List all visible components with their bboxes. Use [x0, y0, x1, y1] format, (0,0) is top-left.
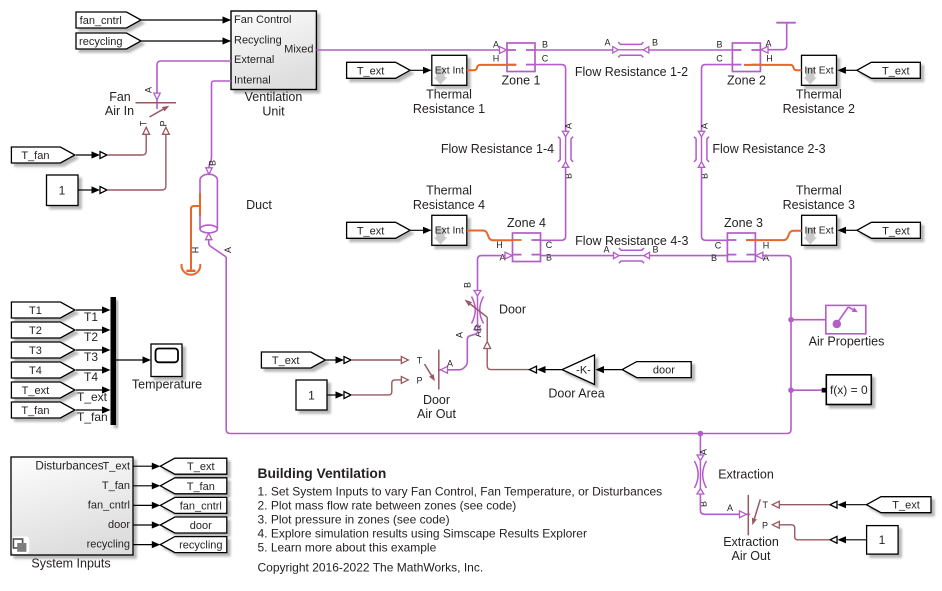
constant 1 (fan) [47, 175, 79, 206]
svg-text:Mixed: Mixed [284, 43, 313, 55]
signal Door Area to Door AR [530, 366, 563, 373]
svg-text:Temperature: Temperature [132, 377, 202, 391]
svg-text:T4: T4 [84, 370, 98, 384]
annotation numbered list [258, 485, 663, 555]
wire label T_ext [77, 390, 108, 404]
svg-text:Thermal: Thermal [796, 184, 842, 198]
wire T2 to mux [76, 326, 111, 333]
wire FR1-2 to Zone2 B [649, 49, 733, 51]
goto tag T_fan [11, 147, 75, 163]
subsystem Thermal Resistance 1 [432, 55, 467, 85]
mux Temperature inputs [111, 297, 117, 425]
svg-text:T_ext: T_ext [882, 225, 910, 237]
flow resistance 2-3 icon [694, 131, 709, 167]
wire Zone1 C down [535, 65, 566, 131]
svg-text:recycling: recycling [87, 539, 130, 551]
port letters FR4-3 [603, 245, 658, 255]
svg-text:1: 1 [879, 533, 886, 547]
svg-text:T_ext: T_ext [357, 65, 385, 77]
port label A (Door Air Out) [447, 359, 453, 369]
svg-text:Resistance 4: Resistance 4 [413, 198, 485, 212]
svg-text:5. Learn more about this examp: 5. Learn more about this example [258, 540, 437, 554]
svg-text:-K-: -K- [576, 365, 591, 377]
label Zone 2 [727, 74, 766, 88]
svg-text:T: T [417, 356, 423, 366]
svg-text:Fan Control: Fan Control [234, 14, 291, 26]
goto tag T_ext (mux) [11, 382, 75, 398]
wire T_ext to mux [76, 386, 111, 393]
label Door [499, 303, 526, 317]
svg-text:T_fan: T_fan [187, 481, 215, 493]
subsystem Thermal Resistance 2 [802, 55, 837, 85]
svg-text:Air Out: Air Out [732, 549, 771, 563]
chamber Zone 2 [732, 43, 761, 72]
svg-text:Ext Int: Ext Int [435, 226, 464, 237]
label Temperature [132, 377, 202, 391]
thermal wire TR1 to Zone 1 H [467, 65, 517, 70]
wire External to Fan Air In [154, 61, 231, 109]
svg-text:Air In: Air In [105, 104, 134, 118]
wire FR2-3 to Zone3 C [702, 168, 728, 241]
svg-text:1: 1 [59, 184, 66, 198]
svg-text:System Inputs: System Inputs [31, 557, 110, 571]
from tag door [160, 517, 227, 533]
svg-text:H: H [191, 247, 201, 254]
label Door Area [548, 387, 604, 401]
svg-text:3. Plot pressure in zones (see: 3. Plot pressure in zones (see code) [258, 513, 450, 527]
svg-text:T_fan: T_fan [102, 480, 130, 492]
wire Duct A down [209, 240, 227, 257]
wire recycling to Ventilation Unit [141, 37, 231, 44]
svg-text:2. Plot mass flow rate between: 2. Plot mass flow rate between zones (se… [258, 499, 517, 513]
svg-text:Zone 3: Zone 3 [724, 216, 763, 230]
svg-text:1. Set System Inputs to vary F: 1. Set System Inputs to vary Fan Control… [258, 485, 663, 499]
label Thermal Resistance 3 [783, 184, 855, 213]
port labels FR1-4 [564, 123, 574, 179]
wire 1 to Fan Air In P [78, 135, 166, 194]
svg-text:Zone 4: Zone 4 [507, 216, 546, 230]
subsystem Ventilation Unit [231, 11, 316, 90]
goto tag T1 (mux) [11, 302, 75, 318]
thermal wire TR4 to Zone 4 H [467, 231, 522, 241]
restriction Extraction icon [694, 455, 706, 494]
svg-text:B: B [716, 40, 722, 50]
label Air Properties [809, 335, 885, 349]
label Fan Air In [105, 90, 134, 118]
flow resistance 4-3 icon [614, 248, 650, 263]
from tag T_ext [160, 458, 227, 474]
wire Zone4 A from Door [478, 252, 513, 291]
wire Extraction to Extraction Air Out [700, 494, 750, 518]
port letters Zone 1 [493, 40, 549, 64]
svg-text:B: B [542, 40, 548, 50]
wire label T1 [84, 310, 98, 324]
svg-text:door: door [653, 365, 675, 377]
svg-text:A: A [564, 123, 574, 129]
svg-text:Fan: Fan [109, 90, 131, 104]
goto tag door [622, 362, 691, 378]
svg-text:T_ext: T_ext [892, 500, 920, 512]
label Flow Resistance 4-3 [575, 234, 688, 248]
port labels Extraction [699, 449, 709, 507]
svg-text:Thermal: Thermal [426, 88, 472, 102]
port label A (Door) [455, 332, 465, 338]
thermal wire Zone 2 H to TR2 [744, 65, 802, 70]
wire label T3 [84, 350, 98, 364]
goto tag T_ext (row4) [347, 222, 411, 238]
reservoir Extraction Air Out [748, 495, 779, 535]
junction dot extraction [698, 431, 704, 437]
pipe Duct [200, 174, 217, 239]
svg-text:recycling: recycling [179, 540, 222, 552]
svg-text:Door Area: Door Area [548, 387, 604, 401]
svg-text:door: door [190, 520, 212, 532]
wire System Inputs fan_cntrl [133, 502, 160, 509]
svg-text:T_fan: T_fan [21, 150, 49, 162]
svg-text:Door: Door [499, 303, 526, 317]
svg-text:T_ext: T_ext [357, 225, 385, 237]
thermal wire Zone 3 H to TR3 [746, 231, 802, 240]
subsystem Thermal Resistance 3 [802, 215, 837, 245]
svg-text:T: T [139, 120, 149, 126]
subsystem Thermal Resistance 4 [432, 215, 467, 245]
port label H (Duct) [191, 247, 201, 254]
svg-text:Door: Door [423, 393, 450, 407]
svg-text:fan_cntrl: fan_cntrl [80, 15, 122, 27]
svg-text:T2: T2 [84, 330, 98, 344]
wire T3 to mux [76, 346, 111, 353]
wire Zone2 C down [702, 65, 733, 131]
svg-text:T_ext: T_ext [882, 65, 910, 77]
wire System Inputs recycling [133, 541, 160, 548]
svg-text:C: C [716, 54, 723, 64]
label Zone 4 [507, 216, 546, 230]
goto tag T_ext (extraction) [867, 497, 932, 513]
svg-text:A: A [727, 503, 733, 513]
svg-text:A: A [223, 247, 233, 253]
wire T1 to mux [76, 306, 111, 313]
wire T_ext to Door Air Out T [326, 356, 402, 363]
junction dot air properties [788, 317, 794, 323]
svg-text:recycling: recycling [79, 36, 122, 48]
svg-text:Resistance 3: Resistance 3 [783, 198, 855, 212]
svg-text:B: B [546, 253, 552, 263]
svg-text:Flow Resistance 1-2: Flow Resistance 1-2 [575, 65, 688, 79]
port label B (Door) [463, 282, 473, 288]
svg-text:Copyright 2016-2022 The MathWo: Copyright 2016-2022 The MathWorks, Inc. [258, 560, 484, 574]
svg-text:Duct: Duct [246, 198, 272, 212]
port label A (Extraction out) [727, 503, 733, 513]
svg-text:B: B [711, 253, 717, 263]
wire System Inputs door [133, 521, 160, 528]
svg-text:P: P [158, 120, 168, 126]
label Thermal Resistance 1 [413, 88, 485, 117]
from tag fan_cntrl [160, 497, 227, 513]
svg-text:Building Ventilation: Building Ventilation [258, 466, 387, 481]
signal AR Door [473, 317, 530, 369]
svg-text:A: A [604, 38, 610, 48]
svg-text:T4: T4 [29, 365, 42, 377]
label Door Air Out [417, 393, 456, 421]
svg-text:B: B [652, 38, 658, 48]
wire Internal to Duct [206, 81, 231, 174]
wire T_ext to Thermal Resistance 4 [411, 227, 432, 234]
svg-text:T3: T3 [84, 350, 98, 364]
svg-text:T_ext: T_ext [22, 385, 50, 397]
wire main trunk [226, 256, 791, 434]
goto tag fan_cntrl [76, 12, 141, 28]
svg-text:4. Explore simulation results: 4. Explore simulation results using Sims… [258, 526, 587, 540]
svg-text:T_ext: T_ext [102, 460, 130, 472]
subsystem System Inputs [11, 457, 133, 555]
wire T_ext to Thermal Resistance 1 [411, 67, 432, 74]
svg-text:fan_cntrl: fan_cntrl [180, 500, 222, 512]
svg-text:P: P [416, 376, 422, 386]
constant 1 (door) [296, 380, 327, 410]
svg-text:Zone 2: Zone 2 [727, 74, 766, 88]
label Extraction Air Out [723, 535, 779, 563]
svg-text:Air Out: Air Out [417, 407, 456, 421]
port letters Zone 4 [496, 240, 553, 263]
port label A (Fan Air In) [144, 87, 154, 93]
goto tag T_ext (TR2) [857, 62, 921, 78]
svg-text:door: door [108, 519, 130, 531]
wire label T2 [84, 330, 98, 344]
svg-text:C: C [542, 54, 549, 64]
svg-text:f(x) = 0: f(x) = 0 [830, 383, 868, 397]
goto tag T_ext (TR3) [857, 222, 921, 238]
svg-text:Thermal: Thermal [796, 88, 842, 102]
svg-text:fan_cntrl: fan_cntrl [88, 500, 130, 512]
wire mux to Temperature scope [116, 356, 151, 363]
wire T4 to mux [76, 366, 111, 373]
from tag recycling [160, 537, 227, 553]
chamber Zone 3 [727, 233, 756, 262]
label Zone 1 [502, 74, 541, 88]
label Flow Resistance 1-4 [441, 142, 554, 156]
wire System Inputs T_ext [133, 463, 160, 470]
svg-text:A: A [699, 449, 709, 455]
label Thermal Resistance 4 [413, 184, 485, 213]
port letters Zone 2 [716, 39, 773, 64]
port label B (Duct) [208, 160, 218, 166]
label Extraction [718, 468, 774, 482]
wire FR4-3 to Zone3 B [650, 255, 728, 257]
wire Zone3 A from trunk [756, 252, 763, 259]
chamber Zone 1 [507, 43, 536, 72]
variable arrow Door [465, 300, 488, 318]
svg-text:Air Properties: Air Properties [809, 335, 885, 349]
svg-text:Resistance 2: Resistance 2 [783, 102, 855, 116]
wire Zone4 B to FR4-3 [541, 255, 614, 257]
svg-text:Int Ext: Int Ext [805, 226, 834, 237]
svg-text:P: P [762, 520, 768, 530]
svg-text:Flow Resistance 2-3: Flow Resistance 2-3 [712, 142, 825, 156]
annotation Building Ventilation heading [258, 466, 387, 481]
svg-text:Int Ext: Int Ext [804, 66, 833, 77]
svg-text:A: A [455, 332, 465, 338]
svg-text:T: T [763, 500, 769, 510]
wire T_ext to Thermal Resistance 3 [838, 227, 857, 234]
wire Zone1 B to FR1-2 [535, 49, 613, 51]
svg-text:A: A [700, 123, 710, 129]
annotation copyright [258, 560, 484, 574]
svg-text:Resistance 1: Resistance 1 [413, 102, 485, 116]
wire label T_fan [77, 410, 108, 424]
svg-text:T3: T3 [29, 345, 42, 357]
svg-text:Ext Int: Ext Int [435, 66, 464, 77]
goto tag T_ext (row1) [347, 62, 411, 78]
wire FR1-4 to Zone4 C [541, 168, 566, 241]
svg-text:Ventilation: Ventilation [245, 90, 303, 104]
label Duct [246, 198, 272, 212]
wire to solver [791, 389, 822, 391]
svg-text:Flow Resistance 4-3: Flow Resistance 4-3 [575, 234, 688, 248]
wire door to Door Area [596, 366, 623, 373]
svg-text:C: C [546, 240, 553, 250]
label Zone 3 [724, 216, 763, 230]
svg-text:T_ext: T_ext [272, 355, 300, 367]
svg-text:H: H [766, 54, 773, 64]
svg-text:Disturbances: Disturbances [35, 459, 103, 472]
junction dot solver [788, 387, 794, 393]
svg-text:1: 1 [308, 389, 315, 403]
port letters FR1-2 [604, 38, 658, 48]
label Ventilation Unit [245, 90, 303, 119]
svg-text:T_fan: T_fan [77, 410, 108, 424]
svg-text:A: A [447, 359, 453, 369]
svg-text:C: C [715, 241, 722, 251]
svg-text:Internal: Internal [234, 75, 271, 87]
wire label T4 [84, 370, 98, 384]
cap terminator above Zone 2 [761, 23, 796, 53]
svg-text:Zone 1: Zone 1 [502, 74, 541, 88]
solver f(x)=0 [822, 375, 872, 405]
svg-text:A: A [144, 87, 154, 93]
chamber Zone 4 [512, 233, 541, 262]
svg-text:Flow Resistance 1-4: Flow Resistance 1-4 [441, 142, 554, 156]
goto tag T4 (mux) [11, 362, 75, 378]
svg-text:T2: T2 [29, 325, 42, 337]
wire Door A to Door Air Out [438, 330, 478, 373]
label Thermal Resistance 2 [783, 88, 855, 117]
svg-text:Thermal: Thermal [426, 184, 472, 198]
svg-text:B: B [463, 282, 473, 288]
wire 1 to Door Air Out P [327, 380, 401, 399]
goto tag T_fan (mux) [11, 402, 75, 418]
port letters Zone 3 [711, 241, 769, 264]
goto tag T2 (mux) [11, 322, 75, 338]
svg-text:T1: T1 [84, 310, 98, 324]
thermal reference cup [182, 264, 201, 275]
label Flow Resistance 2-3 [712, 142, 825, 156]
svg-text:A: A [763, 253, 769, 263]
reservoir Fan Air In [136, 103, 177, 135]
gain Door Area [562, 355, 595, 385]
wire to Air Properties [791, 319, 826, 321]
svg-text:T_fan: T_fan [21, 405, 49, 417]
svg-text:A: A [493, 40, 499, 50]
from tag T_fan [160, 478, 227, 494]
wire T_fan to mux [76, 406, 111, 413]
wire T_ext to Thermal Resistance 2 [837, 67, 856, 74]
svg-text:External: External [234, 54, 274, 66]
svg-text:T_ext: T_ext [187, 461, 215, 473]
label Flow Resistance 1-2 [575, 65, 688, 79]
svg-text:H: H [493, 54, 500, 64]
wire T_ext to Extraction Air Out T [779, 501, 866, 508]
svg-text:Extraction: Extraction [718, 468, 774, 482]
svg-text:T1: T1 [29, 305, 42, 317]
svg-text:Unit: Unit [262, 105, 285, 119]
svg-text:B: B [208, 160, 218, 166]
scope Temperature [151, 344, 182, 377]
wire Mixed to Zone 1 [316, 47, 506, 54]
svg-text:H: H [496, 240, 503, 250]
port label A (Duct out) [223, 247, 233, 253]
label System Inputs [31, 557, 110, 571]
goto tag T_ext (door) [261, 352, 325, 368]
wire fan_cntrl to Ventilation Unit [141, 16, 231, 23]
gas properties Air Properties [826, 305, 866, 333]
svg-text:Recycling: Recycling [234, 35, 282, 47]
wire System Inputs T_fan [133, 482, 160, 489]
reservoir Door Air Out [401, 350, 439, 390]
flow resistance 1-2 icon [613, 42, 649, 57]
svg-text:T_ext: T_ext [77, 390, 108, 404]
wire 1 to Extraction Air Out P [779, 525, 866, 544]
port labels FR2-3 [700, 123, 710, 179]
thermal wire Duct H [191, 193, 200, 270]
wire trunk to Extraction [699, 434, 701, 456]
flow resistance 1-4 icon [558, 131, 573, 167]
restriction Door icon [472, 291, 484, 330]
svg-text:H: H [763, 241, 770, 251]
constant 1 (extraction) [867, 526, 899, 555]
wire T_fan to Fan Air In T [76, 135, 146, 159]
svg-text:Extraction: Extraction [723, 535, 779, 549]
goto tag recycling [76, 33, 141, 49]
goto tag T3 (mux) [11, 342, 75, 358]
